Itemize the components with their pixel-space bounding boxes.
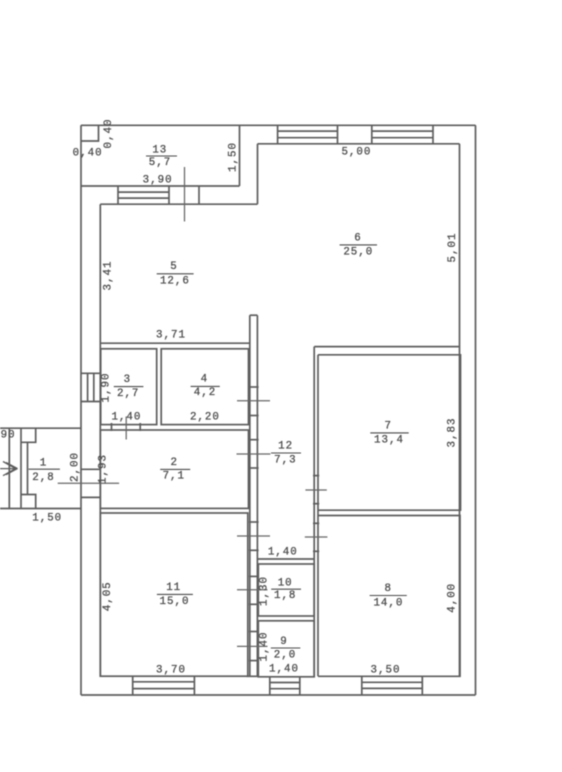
pier 0,40 corner square [81, 125, 99, 141]
svg-text:3,83: 3,83 [447, 418, 459, 448]
window bottom room8 [362, 676, 423, 695]
wall room6 top inner [258, 143, 460, 145]
svg-text:13,4: 13,4 [374, 435, 404, 447]
svg-text:7: 7 [384, 421, 391, 433]
svg-text:4: 4 [201, 374, 208, 386]
svg-text:6: 6 [354, 232, 361, 244]
room 1 walls [0, 428, 81, 508]
svg-text:9: 9 [280, 636, 287, 648]
svg-text:5: 5 [170, 261, 177, 273]
label fraction lines [29, 156, 409, 648]
svg-text:3: 3 [124, 374, 131, 386]
svg-text:0,40: 0,40 [103, 119, 115, 149]
tick door room1 [58, 482, 119, 484]
dimension ticks [58, 167, 328, 646]
svg-text:3,90: 3,90 [143, 174, 173, 186]
door jambs room3-room2 [111, 423, 113, 431]
svg-text:2,00: 2,00 [70, 452, 82, 482]
window bottom room9 [270, 677, 300, 696]
room 3 box [101, 349, 157, 425]
dimension labels rotated [70, 119, 460, 662]
svg-text:7,1: 7,1 [163, 471, 185, 483]
tick door room10 [237, 589, 268, 591]
svg-text:5,00: 5,00 [341, 146, 371, 158]
svg-text:1,50: 1,50 [228, 142, 240, 172]
svg-text:4,2: 4,2 [194, 387, 216, 399]
svg-text:1,40: 1,40 [111, 412, 141, 424]
wall outer left [80, 125, 82, 695]
wall room13 right [239, 125, 241, 186]
svg-text:5,7: 5,7 [149, 157, 171, 169]
room 1 dimension line [8, 428, 10, 508]
room 8 box [318, 516, 460, 677]
svg-text:1,40: 1,40 [259, 632, 271, 662]
wall inner left [99, 204, 101, 676]
window top 1 [278, 125, 338, 144]
svg-text:90: 90 [1, 429, 16, 441]
wall room6/room7 [314, 346, 459, 348]
svg-text:1,90: 1,90 [101, 373, 113, 403]
room 2 box [100, 430, 248, 508]
svg-text:2: 2 [170, 457, 177, 469]
corridor right wall [313, 347, 319, 677]
svg-text:1,93: 1,93 [98, 454, 110, 484]
wall inner right [459, 144, 461, 677]
room 11 box [100, 513, 248, 676]
corridor left wall [249, 315, 259, 676]
wall room13/room6 right line [257, 144, 259, 204]
svg-text:12: 12 [278, 441, 293, 453]
room 4 box [161, 349, 248, 425]
svg-text:5,01: 5,01 [447, 233, 459, 263]
room 10 box [258, 564, 314, 616]
svg-text:0,40: 0,40 [73, 148, 103, 160]
svg-text:4,05: 4,05 [102, 581, 114, 611]
svg-text:2,7: 2,7 [117, 388, 139, 400]
svg-text:11: 11 [166, 582, 181, 594]
svg-text:15,0: 15,0 [160, 596, 190, 608]
wall outer right [475, 125, 477, 695]
tick door room13 [184, 167, 186, 222]
svg-text:1,40: 1,40 [268, 547, 298, 559]
svg-text:3,41: 3,41 [103, 261, 115, 291]
svg-text:14,0: 14,0 [373, 597, 403, 609]
svg-text:1,40: 1,40 [269, 664, 299, 676]
svg-text:2,8: 2,8 [32, 472, 54, 484]
svg-text:4,00: 4,00 [447, 583, 459, 613]
svg-text:7,3: 7,3 [274, 455, 296, 467]
window left wall [81, 373, 100, 401]
window room13/room5 [118, 186, 199, 204]
window top 2 [372, 125, 433, 144]
bottom inner wall line [247, 675, 259, 677]
svg-text:1: 1 [40, 457, 47, 469]
wall room13 bottom [81, 185, 240, 187]
svg-text:3,50: 3,50 [371, 665, 401, 677]
svg-text:3,70: 3,70 [156, 665, 186, 677]
wall outer top [81, 124, 476, 126]
wall outer bottom [81, 694, 476, 696]
svg-text:1,8: 1,8 [274, 590, 296, 602]
wall room5 bottom [100, 342, 250, 344]
corridor vestibule bottom [257, 558, 314, 560]
svg-text:8: 8 [384, 583, 391, 595]
room 9 box [258, 621, 314, 677]
dimension labels horizontal [1, 146, 401, 676]
svg-text:13: 13 [152, 145, 167, 157]
svg-text:3,71: 3,71 [156, 330, 186, 342]
tick door room7 [305, 489, 326, 491]
tick door room4 [237, 400, 270, 402]
tick door room2 [237, 453, 271, 455]
tick door room11 [237, 535, 270, 537]
svg-text:12,6: 12,6 [160, 276, 190, 288]
tick door room3 [125, 417, 127, 440]
tick door room9 [237, 645, 268, 647]
door caps left wall [81, 468, 100, 470]
svg-text:2,20: 2,20 [190, 412, 220, 424]
window bottom room11 [133, 676, 195, 695]
svg-text:10: 10 [278, 578, 293, 590]
svg-text:1,50: 1,50 [32, 512, 62, 524]
room labels [32, 145, 404, 662]
wall room5 top inner [100, 203, 257, 205]
entrance arrow [0, 462, 18, 476]
svg-text:25,0: 25,0 [343, 247, 373, 259]
room 7 box [318, 355, 461, 510]
tick door room8 [305, 536, 328, 538]
svg-text:2,0: 2,0 [274, 650, 296, 662]
svg-text:1,30: 1,30 [259, 576, 271, 606]
